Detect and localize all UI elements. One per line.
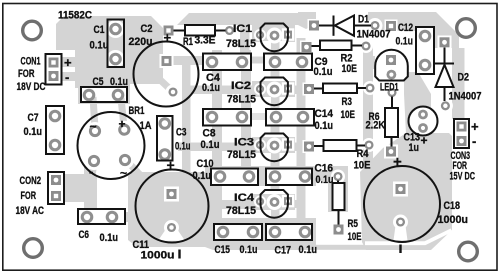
pads D2 [440, 37, 450, 47]
svg-text:~: ~ [120, 166, 127, 180]
svg-text:IC3: IC3 [234, 137, 254, 149]
svg-text:R4: R4 [357, 148, 370, 160]
clearance C10 body [211, 169, 258, 186]
wire IC2 pad band [252, 81, 295, 97]
svg-text:78L15: 78L15 [227, 94, 256, 106]
clearance R6 body [385, 108, 398, 137]
pads C11 [167, 189, 177, 199]
clearance IC3 body [261, 134, 288, 162]
wire C8 to C14 link [248, 113, 267, 120]
wire IC3 right stub [288, 143, 302, 152]
svg-text:C6: C6 [79, 229, 90, 241]
clearance C11 keyhole [164, 220, 179, 235]
pad R1 right ring [226, 27, 233, 34]
pads CON2 [51, 175, 61, 185]
svg-text:1N4007: 1N4007 [449, 91, 482, 103]
svg-text:18V AC: 18V AC [16, 205, 45, 217]
pads C8 [206, 111, 219, 124]
capacitor C8 outline [203, 109, 251, 126]
svg-text:D2: D2 [458, 72, 470, 84]
clearance C2 square pad halo [160, 54, 174, 68]
clearance C11 square pad halo [164, 187, 179, 202]
svg-text:C14: C14 [315, 108, 334, 120]
svg-text:C5: C5 [93, 76, 104, 88]
svg-text:+: + [421, 134, 428, 148]
pads IC4 [257, 199, 263, 205]
clearance LED cathode via halo [385, 86, 399, 100]
svg-text:10E: 10E [354, 160, 371, 172]
POUR_LAYER [46, 18, 470, 243]
copper pour top-right plane [368, 12, 459, 48]
svg-text:1N4007: 1N4007 [357, 29, 391, 41]
connector CON1 outline [46, 54, 62, 85]
wire left cap rail [212, 50, 222, 224]
pads C10 [214, 170, 227, 183]
copper pour centre-bottom plane (C11 area) [128, 172, 316, 250]
svg-text:-: - [89, 164, 93, 179]
svg-text:-: - [472, 134, 476, 149]
svg-text:0.1u: 0.1u [315, 120, 334, 132]
clearance R5 body [333, 183, 345, 210]
svg-text:0.1u: 0.1u [316, 174, 334, 186]
clearance R4 pads halo [303, 140, 316, 153]
svg-text:0.1u: 0.1u [396, 36, 414, 48]
wire row to IC4 pin [205, 200, 262, 209]
copper pour LED1 left patch [366, 56, 375, 69]
clearance BR1 body [78, 112, 145, 179]
pads R3 [304, 84, 314, 94]
regulator IC4 outline [261, 190, 288, 218]
clearance R6 pad halo [384, 145, 398, 159]
copper pour top-left plane [56, 16, 163, 104]
svg-text:FOR: FOR [21, 190, 37, 202]
capacitor C6 outline [78, 209, 125, 224]
clearance C17 body [266, 224, 312, 240]
pads IC3 [257, 142, 263, 148]
pads C15 [217, 226, 230, 239]
clearance C13 body [409, 107, 438, 136]
wire second cap rail [241, 50, 251, 176]
clearance C14 body [266, 109, 314, 126]
wire centre rail (IC middle pins) [271, 36, 280, 228]
svg-text:10E: 10E [341, 109, 356, 121]
svg-text:78L15: 78L15 [226, 38, 256, 50]
svg-text:+: + [119, 117, 126, 131]
capacitor C14 outline [266, 109, 314, 126]
LED1 cathode lead [391, 97, 393, 109]
svg-text:C12: C12 [398, 22, 413, 34]
svg-text:IC1: IC1 [233, 23, 252, 35]
clearance C6 body [78, 209, 125, 224]
svg-text:IC4: IC4 [234, 192, 255, 204]
svg-text:FOR: FOR [18, 68, 35, 80]
copper pour C10-C16 row band [205, 166, 316, 186]
clearance C9 body [264, 54, 312, 71]
LED1 outline [375, 50, 408, 81]
clearance C1 pad halos [107, 20, 125, 38]
svg-text:R3: R3 [342, 96, 353, 108]
clearance C2 via halo [166, 85, 181, 100]
clearance C3 pad halos [156, 115, 174, 133]
clearance C18 keyhole [393, 215, 408, 230]
pads D1 [309, 21, 319, 31]
svg-text:2.2K: 2.2K [366, 120, 386, 132]
svg-text:0.1u: 0.1u [240, 244, 258, 256]
clearance R2 pads halo [300, 41, 313, 54]
pads CON3 [457, 122, 467, 132]
wire BR1 stub to pin1 [93, 97, 95, 128]
svg-text:D1: D1 [358, 14, 369, 26]
clearance C12 body [416, 27, 434, 74]
pads BR1 [90, 126, 99, 135]
svg-text:C2: C2 [141, 23, 153, 35]
svg-text:+: + [471, 119, 479, 134]
pad C2 via ring [170, 89, 177, 96]
svg-text:1A: 1A [140, 120, 152, 132]
svg-text:C17: C17 [275, 245, 292, 257]
svg-text:C1: C1 [94, 24, 105, 36]
clearance C5 body [81, 87, 127, 102]
svg-text:CON1: CON1 [21, 56, 41, 68]
pads C14 [270, 111, 283, 124]
capacitor C7 outline [46, 106, 64, 154]
wire row to IC2 pin [186, 86, 262, 95]
pads C17 [269, 226, 282, 239]
clearance D2 pads halo [438, 36, 452, 50]
clearance R4 body [324, 140, 357, 151]
pads R4 [304, 142, 314, 152]
capacitor C5 outline [81, 87, 127, 102]
svg-text:0.1u: 0.1u [314, 66, 333, 78]
svg-text:220u: 220u [129, 36, 153, 48]
pads C6 [81, 211, 94, 224]
svg-text:11582C: 11582C [58, 10, 92, 22]
resistor R5 [333, 183, 345, 210]
clearance LED1 body [375, 50, 408, 81]
wire centre rail inside IC3 [271, 153, 280, 164]
clearance C8 body [203, 109, 251, 126]
wire CON1 plus stub [60, 57, 77, 67]
pads C1 [109, 23, 122, 36]
pads C18 [396, 184, 406, 194]
wire centre rail inside IC1 [271, 41, 280, 52]
resistor R6 [385, 108, 398, 137]
resistor R3 [323, 84, 357, 94]
capacitor C2 outline [134, 42, 199, 107]
mounting hole bottom-right [459, 242, 478, 261]
mounting hole top-right [457, 19, 476, 38]
wire C6 to pour stub [108, 212, 132, 222]
clearance C18 square pad halo [393, 182, 408, 197]
mounting hole bottom-left [24, 239, 43, 258]
wire IC4 pad band [252, 194, 295, 210]
svg-text:~: ~ [90, 120, 97, 134]
wire bottom band to C18 [316, 245, 368, 250]
clearance D1 pads halo [308, 19, 321, 32]
clearance CON1 body [46, 54, 62, 85]
wire centre rail inside IC4 [271, 210, 280, 219]
svg-text:1u: 1u [409, 142, 420, 154]
pads C13 [418, 110, 428, 120]
pads C12 [419, 30, 432, 43]
svg-text:10E: 10E [342, 63, 358, 75]
wire BR1 to C6 rail [84, 158, 97, 220]
svg-text:3.3E: 3.3E [195, 35, 216, 47]
wire IC1 pad band [252, 24, 295, 41]
wire C2 pad to C4 stub [172, 56, 214, 65]
wire row to IC3 pin [178, 143, 262, 152]
clearance R3 body [323, 84, 357, 94]
svg-text:C7: C7 [28, 112, 39, 124]
svg-text:-: - [65, 70, 69, 85]
svg-text:0.1u: 0.1u [202, 82, 220, 94]
capacitor C1 outline [108, 20, 125, 68]
clearance C4 body [203, 54, 251, 71]
clearance C16 body [266, 169, 312, 186]
clearance IC2 body [261, 78, 288, 106]
svg-text:0.1u: 0.1u [100, 232, 119, 244]
svg-text:1000u: 1000u [141, 250, 175, 262]
svg-text:78L15: 78L15 [226, 205, 256, 217]
capacitor C15 outline [214, 224, 262, 240]
pads C7 [49, 110, 62, 123]
capacitor C16 outline [266, 169, 312, 186]
clearance C7 body [46, 106, 64, 154]
mounting hole top-left [23, 21, 42, 40]
clearance via halo top-right [385, 20, 398, 33]
capacitor C4 outline [203, 54, 251, 71]
connector CON3 outline [454, 119, 469, 148]
wire C2 to C11 rail [182, 61, 191, 172]
wire IC3 pad band [252, 137, 295, 153]
wire centre rail inside IC2 [271, 97, 280, 108]
diode D2 symbol [444, 48, 446, 64]
clearance CON2 body [48, 172, 64, 204]
capacitor C11 minus mark [178, 250, 180, 259]
pads C4 [206, 56, 219, 69]
connector CON2 outline [48, 172, 64, 204]
wire right cap rail [297, 38, 306, 232]
pads C3 [159, 117, 172, 130]
clearance channel below C18 [365, 230, 452, 243]
pad via top-right [386, 21, 396, 31]
wire BR1 stub to pin3 [91, 163, 94, 182]
copper pour CON2 block [64, 174, 97, 202]
wire BR1 stub to pin2 [121, 98, 124, 127]
WHITE_LAYER [85, 24, 295, 219]
capacitor C17 outline [266, 224, 312, 240]
clearance R2 body [320, 41, 352, 51]
svg-text:10E: 10E [348, 231, 362, 243]
svg-text:C3: C3 [176, 127, 187, 139]
pad R1 left square [164, 26, 174, 36]
diode D1 symbol [319, 25, 334, 27]
wire C16 to R5 stub [305, 171, 335, 181]
pads R5 [335, 173, 342, 180]
svg-text:C18: C18 [444, 200, 461, 212]
svg-text:C16: C16 [315, 163, 334, 175]
clearance BR1 pad halos [85, 121, 134, 170]
wire IC1 to C4 rail [240, 20, 250, 62]
wire IC2 right stub [288, 86, 302, 95]
regulator IC2 outline [261, 78, 288, 106]
pads R6 [389, 89, 396, 96]
copper pour right plane (C18 area) [360, 133, 452, 250]
capacitor C11 outline [136, 170, 209, 243]
resistor R2 [320, 41, 352, 51]
capacitor C3 outline [157, 116, 173, 161]
wire C2 diagonal stub to via [156, 76, 171, 90]
svg-text:18V DC: 18V DC [17, 81, 46, 93]
clearance R5 pads halo [331, 170, 345, 184]
pads IC2 [257, 86, 263, 92]
svg-text:0.1u: 0.1u [24, 126, 43, 138]
wire R5 band [328, 166, 348, 212]
svg-text:C8: C8 [203, 128, 216, 140]
svg-text:1000u: 1000u [438, 214, 469, 226]
clearance R3 pads halo [303, 83, 316, 96]
resistor R4 [324, 140, 357, 151]
clearance IC1 body [261, 24, 288, 52]
pads CON1 [49, 58, 59, 68]
capacitor C18 minus mark [399, 245, 401, 254]
svg-text:+: + [64, 55, 72, 70]
svg-text:0.1u: 0.1u [90, 40, 109, 52]
copper pour top-middle plane (IC1 area) [177, 13, 303, 42]
svg-text:0.1u: 0.1u [175, 141, 191, 153]
svg-text:0.1u: 0.1u [110, 76, 128, 88]
wire CON1 minus stub [60, 72, 77, 81]
clearance IC4 body [261, 190, 288, 218]
svg-text:0.1u: 0.1u [299, 244, 318, 256]
wire BR1 stub to pin4 [126, 160, 143, 178]
pads LED1 [386, 55, 396, 65]
svg-text:+: + [393, 154, 402, 171]
TRACE_OVER_LAYER [49, 21, 467, 239]
pads C5 [83, 89, 96, 102]
clearance C15 body [214, 224, 262, 240]
pad C2 plus square [162, 56, 172, 66]
pads IC1 [257, 32, 263, 38]
copper pour LED1-C13 patch [404, 72, 431, 134]
copper pour D1 anode patch [298, 12, 316, 29]
svg-text:15V DC: 15V DC [450, 171, 476, 183]
svg-text:C10: C10 [197, 158, 214, 170]
svg-text:+: + [167, 157, 175, 173]
capacitor C10 outline [211, 169, 258, 186]
wire right rail to CON3 [452, 48, 465, 119]
clearance CON3 body [454, 119, 469, 148]
svg-text:R1: R1 [183, 36, 193, 48]
pads R2 [302, 42, 312, 52]
regulator IC1 outline [261, 24, 288, 52]
capacitor C9 outline [264, 54, 312, 71]
svg-text:0.1u: 0.1u [201, 139, 220, 151]
svg-text:BR1: BR1 [129, 105, 145, 117]
pads C9 [269, 56, 282, 69]
resistor R1 [185, 25, 215, 36]
pads C16 [269, 170, 282, 183]
svg-text:R5: R5 [348, 218, 359, 230]
clearance IC pad halos over bands [254, 28, 294, 211]
svg-text:78L15: 78L15 [227, 149, 256, 161]
svg-text:CON2: CON2 [20, 175, 42, 187]
svg-text:IC2: IC2 [231, 80, 251, 92]
capacitor C13 outline [409, 107, 438, 136]
bridge rectifier BR1 outline [78, 112, 145, 179]
capacitor C12 outline [416, 27, 434, 74]
clearance R1 body [185, 25, 215, 36]
regulator IC3 outline [261, 134, 288, 162]
capacitor C18 outline [364, 166, 440, 242]
svg-text:C15: C15 [215, 244, 231, 256]
svg-text:+: + [164, 30, 172, 45]
wire IC4 right stub [288, 200, 302, 208]
svg-text:LED1: LED1 [380, 82, 399, 94]
wire C4 to C9 link [248, 57, 267, 64]
wire R2-R3-R4 right rail [363, 46, 373, 172]
svg-text:0.1u: 0.1u [193, 170, 212, 182]
